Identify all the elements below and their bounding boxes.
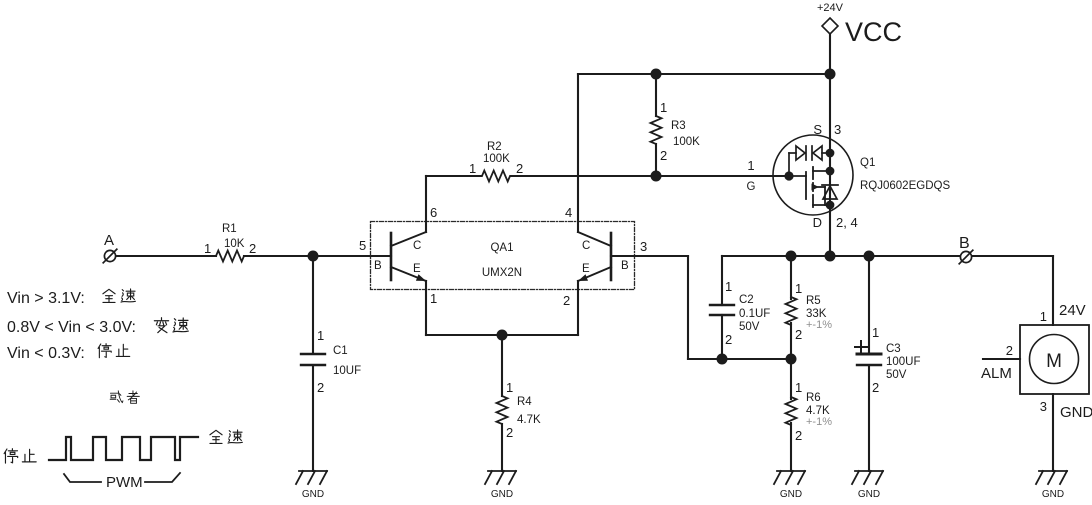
capacitor C3 bbox=[868, 256, 870, 354]
svg-text:2: 2 bbox=[249, 241, 256, 256]
resistor R2 bbox=[482, 171, 510, 182]
wire gate net: pin6 - R2 - R3 - Q1 gate bbox=[426, 175, 481, 177]
svg-text:1: 1 bbox=[660, 100, 667, 115]
dots on S-D line bbox=[826, 149, 835, 158]
svg-text:GND: GND bbox=[1060, 404, 1092, 421]
svg-text:100K: 100K bbox=[483, 153, 510, 165]
svg-text:1: 1 bbox=[872, 325, 879, 340]
svg-text:GND: GND bbox=[491, 489, 513, 500]
gate protection diodes bbox=[789, 146, 830, 176]
junction R3 bottom bbox=[651, 171, 662, 182]
svg-text:C3: C3 bbox=[886, 343, 901, 355]
wire emitter bus bbox=[426, 334, 578, 336]
svg-text:4.7K: 4.7K bbox=[517, 414, 541, 426]
svg-text:GND: GND bbox=[858, 489, 880, 500]
svg-text:ALM: ALM bbox=[981, 365, 1012, 382]
junction R3 top bbox=[651, 69, 662, 80]
ground bbox=[485, 471, 516, 484]
svg-text:1: 1 bbox=[506, 380, 513, 395]
svg-text:Q1: Q1 bbox=[860, 157, 875, 169]
svg-text:100UF: 100UF bbox=[886, 356, 921, 368]
pwm brace bbox=[64, 473, 180, 482]
svg-text:0.1UF: 0.1UF bbox=[739, 308, 770, 320]
svg-text:+24V: +24V bbox=[817, 2, 844, 14]
pin 1 wire (left emitter) bbox=[425, 281, 427, 335]
pin 2 wire (right emitter) bbox=[577, 281, 579, 335]
wire top bus bbox=[578, 73, 830, 75]
svg-text:C: C bbox=[582, 240, 590, 252]
motor pin3 wire bbox=[1052, 394, 1054, 471]
body diode bbox=[822, 185, 838, 199]
ground bbox=[296, 471, 327, 484]
stop label bbox=[4, 449, 18, 464]
svg-text:100K: 100K bbox=[673, 136, 700, 148]
svg-text:B: B bbox=[959, 235, 970, 252]
or text bbox=[110, 391, 123, 403]
svg-text:GND: GND bbox=[1042, 489, 1064, 500]
diamond bbox=[822, 18, 838, 34]
svg-text:Vin > 3.1V:: Vin > 3.1V: bbox=[7, 290, 85, 307]
wire VCC down bbox=[829, 34, 831, 256]
junction dots on bus bbox=[786, 251, 797, 262]
svg-text:2: 2 bbox=[725, 332, 732, 347]
junction at R4 top bbox=[497, 330, 508, 341]
svg-text:VCC: VCC bbox=[845, 17, 902, 47]
svg-text:S: S bbox=[813, 122, 822, 137]
junction R5 bottom bbox=[786, 354, 797, 365]
svg-text:2, 4: 2, 4 bbox=[836, 215, 858, 230]
svg-text:GND: GND bbox=[780, 489, 802, 500]
svg-text:1: 1 bbox=[469, 161, 476, 176]
svg-text:QA1: QA1 bbox=[490, 242, 513, 254]
junction C2 bottom bbox=[717, 354, 728, 365]
wire R4 to gnd bbox=[501, 424, 503, 471]
resistor R3 bbox=[655, 74, 657, 116]
motor M bbox=[1020, 325, 1089, 394]
transistor QA1 left bbox=[391, 232, 426, 281]
svg-text:1: 1 bbox=[747, 158, 754, 173]
svg-text:+-1%: +-1% bbox=[806, 319, 832, 331]
svg-text:10UF: 10UF bbox=[333, 365, 361, 377]
transistor QA1 right bbox=[578, 232, 611, 281]
svg-text:2: 2 bbox=[506, 425, 513, 440]
svg-text:24V: 24V bbox=[1059, 302, 1086, 319]
pin 4 wire bbox=[577, 74, 579, 232]
svg-text:2: 2 bbox=[1006, 343, 1013, 358]
wire QA1 pin3 to lower node bbox=[611, 255, 688, 257]
full speed label bbox=[210, 430, 222, 443]
resistor R5 bbox=[790, 256, 792, 299]
svg-text:R2: R2 bbox=[487, 141, 502, 153]
svg-text:6: 6 bbox=[430, 205, 437, 220]
svg-text:3: 3 bbox=[640, 239, 647, 254]
bottom bus bbox=[722, 255, 1053, 257]
ground bbox=[774, 471, 805, 484]
node junction at C1 top bbox=[308, 251, 319, 262]
svg-text:2: 2 bbox=[795, 428, 802, 443]
svg-text:A: A bbox=[104, 232, 114, 249]
svg-text:B: B bbox=[621, 260, 629, 272]
svg-text:2: 2 bbox=[872, 380, 879, 395]
ground bbox=[1036, 471, 1067, 484]
wire R1 to QA1 base bbox=[244, 255, 391, 257]
svg-text:G: G bbox=[747, 181, 756, 193]
svg-text:R1: R1 bbox=[222, 223, 237, 235]
svg-text:4: 4 bbox=[565, 205, 572, 220]
svg-text:D: D bbox=[813, 215, 822, 230]
svg-text:M: M bbox=[1046, 351, 1062, 372]
svg-text:+-1%: +-1% bbox=[806, 416, 832, 428]
wire A to R1 bbox=[115, 255, 216, 257]
resistor R4 bbox=[497, 396, 508, 424]
svg-text:UMX2N: UMX2N bbox=[482, 267, 522, 279]
svg-text:R5: R5 bbox=[806, 295, 821, 307]
svg-text:R3: R3 bbox=[671, 120, 686, 132]
svg-text:1: 1 bbox=[204, 241, 211, 256]
svg-text:1: 1 bbox=[795, 281, 802, 296]
motor pin2 wire bbox=[983, 358, 1020, 360]
svg-text:2: 2 bbox=[660, 148, 667, 163]
wire to motor bbox=[1052, 256, 1054, 325]
svg-text:C1: C1 bbox=[333, 345, 348, 357]
svg-text:2: 2 bbox=[317, 380, 324, 395]
svg-text:R4: R4 bbox=[517, 396, 532, 408]
svg-text:3: 3 bbox=[1040, 399, 1047, 414]
resistor R6 bbox=[790, 359, 792, 399]
svg-text:1: 1 bbox=[1040, 309, 1047, 324]
wire C1 to gnd bbox=[312, 365, 314, 471]
svg-text:0.8V < Vin < 3.0V:: 0.8V < Vin < 3.0V: bbox=[7, 319, 136, 336]
svg-text:B: B bbox=[374, 260, 382, 272]
svg-text:2: 2 bbox=[563, 293, 570, 308]
svg-text:50V: 50V bbox=[886, 369, 907, 381]
svg-text:1: 1 bbox=[725, 279, 732, 294]
mosfet symbol bbox=[789, 167, 830, 207]
svg-text:1: 1 bbox=[317, 328, 324, 343]
pin 6 wire bbox=[425, 176, 427, 232]
resistor R1 bbox=[216, 251, 244, 262]
QA1 dashed box bbox=[371, 222, 635, 290]
mosfet Q1 bbox=[773, 135, 853, 215]
svg-text:E: E bbox=[582, 263, 590, 275]
node B bbox=[959, 250, 973, 264]
junction VCC line bbox=[825, 69, 836, 80]
svg-text:3: 3 bbox=[834, 122, 841, 137]
svg-text:PWM: PWM bbox=[106, 474, 143, 491]
wire R2 to Q1 gate bbox=[511, 175, 789, 177]
svg-text:50V: 50V bbox=[739, 321, 760, 333]
svg-text:E: E bbox=[413, 263, 421, 275]
svg-text:C: C bbox=[413, 240, 421, 252]
wire down to C1 bbox=[312, 256, 314, 354]
svg-text:RQJ0602EGDQS: RQJ0602EGDQS bbox=[860, 180, 950, 192]
gate junction dot bbox=[784, 171, 793, 180]
svg-text:2: 2 bbox=[516, 161, 523, 176]
ground bbox=[852, 471, 883, 484]
svg-text:10K: 10K bbox=[224, 238, 245, 250]
svg-text:Vin < 0.3V:: Vin < 0.3V: bbox=[7, 345, 85, 362]
svg-text:1: 1 bbox=[795, 380, 802, 395]
node A port bbox=[103, 249, 117, 263]
svg-text:5: 5 bbox=[359, 238, 366, 253]
capacitor C1 bbox=[301, 353, 325, 355]
svg-text:2: 2 bbox=[795, 327, 802, 342]
svg-text:1: 1 bbox=[430, 291, 437, 306]
svg-text:R6: R6 bbox=[806, 392, 821, 404]
capacitor C2 bbox=[721, 256, 723, 305]
svg-text:GND: GND bbox=[302, 489, 324, 500]
pwm waveform bbox=[49, 437, 198, 460]
wire to R4 bbox=[501, 335, 503, 396]
svg-text:C2: C2 bbox=[739, 294, 754, 306]
